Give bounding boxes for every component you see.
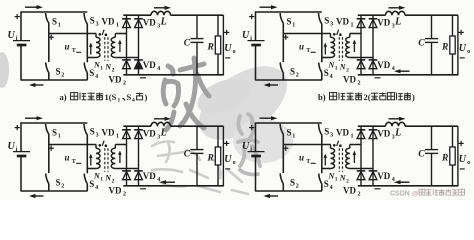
circuit c: label VD2 [109, 185, 127, 197]
svg-text:2: 2 [346, 178, 349, 184]
svg-text:C: C [418, 149, 425, 159]
svg-text:S: S [287, 127, 292, 137]
circuit d: secondary polarity dot [339, 144, 342, 147]
watermark: light gray swath lower [233, 119, 293, 163]
svg-text:2: 2 [123, 80, 126, 86]
svg-text:b): b) [318, 92, 326, 102]
circuit b: primary polarity dot [333, 30, 339, 36]
circuit d: wire secondary bottom to bridge [350, 168, 373, 170]
circuit c: wire output right rail [222, 126, 224, 186]
circuit d: current arrow top rail [260, 116, 278, 120]
circuit a: label Ui [8, 30, 18, 42]
circuit d: resistor R1 [450, 126, 455, 186]
circuit c: wire left rail upper [20, 123, 22, 151]
circuit d: switch S1 [280, 124, 283, 145]
circuit b: label C [418, 38, 425, 48]
circuit a: switch S1 [46, 13, 49, 34]
circuit b: wire right-leg midpoint to primary bottom [322, 57, 331, 59]
circuit c: inductor L1 [151, 122, 171, 126]
circuit d: label Uo [459, 154, 470, 166]
svg-text:1: 1 [58, 133, 61, 139]
circuit c: diode VD1 [122, 126, 131, 138]
svg-text:4: 4 [95, 74, 98, 80]
circuit d: wire output bottom rail [358, 185, 458, 187]
circuit b: wire output right rail [457, 15, 459, 75]
caption a: switching state 1 (S1 S4 on) [60, 92, 148, 104]
svg-text:2: 2 [358, 80, 361, 86]
circuit b: label Ui [242, 30, 252, 42]
circuit a: wire right-leg midpoint to primary bottom [87, 57, 96, 59]
svg-text:VD: VD [377, 18, 390, 28]
circuit c: current arrow above L [154, 117, 171, 121]
circuit d: freewheel current arrow bottom [394, 180, 410, 184]
svg-text:VD: VD [109, 185, 122, 195]
svg-text:2: 2 [112, 178, 115, 184]
svg-text:VD: VD [343, 74, 356, 84]
circuit d: label S2 [290, 178, 299, 190]
circuit b: inductor L1 [386, 11, 406, 15]
circuit c: label S4 [89, 179, 98, 191]
watermark: large gray glyph (stamp character) [163, 58, 209, 130]
circuit b: label plus of uT [283, 35, 288, 40]
circuit a: wire left rail lower [20, 46, 22, 81]
circuit b: plus sign of source Ui [249, 14, 254, 19]
watermark: CSDN credit text [390, 189, 465, 197]
svg-text:U: U [242, 30, 250, 41]
circuit d: switch S4 [319, 169, 322, 192]
svg-text:4: 4 [330, 185, 333, 191]
circuit d: label N1 [328, 172, 338, 183]
circuit d: transformer core [339, 148, 342, 172]
circuit b: resistor R1 [450, 15, 455, 75]
circuit a: current arrow above L [154, 6, 171, 10]
svg-text:2: 2 [346, 67, 349, 73]
circuit d: wire right-leg midpoint to primary bottom [322, 168, 331, 170]
circuit b: label N1 [328, 61, 338, 72]
circuit b: wire output bottom rail [358, 74, 458, 76]
circuit d: wire top rail [255, 122, 322, 124]
svg-text:VD: VD [143, 171, 156, 181]
svg-text:L: L [394, 128, 401, 139]
svg-text:): ) [145, 92, 148, 102]
circuit c: current arrow top rail [25, 116, 43, 120]
circuit a: label S4 [89, 68, 98, 80]
svg-text:u: u [65, 42, 70, 52]
circuit b: node wire left-leg midpoint to primary [283, 33, 330, 35]
svg-text:4: 4 [330, 74, 333, 80]
svg-text:4: 4 [132, 98, 135, 104]
svg-text:o: o [233, 49, 236, 55]
circuit b: wire secondary bottom to bridge [350, 57, 373, 59]
circuit b: switch S3 [319, 13, 322, 58]
circuit c: label C [184, 149, 191, 159]
svg-text:C: C [184, 38, 191, 48]
circuit b: label R [441, 42, 448, 52]
circuit d: label plus of Uo [459, 141, 464, 146]
svg-text:1(S: 1(S [105, 92, 117, 102]
svg-text:1: 1 [335, 176, 338, 182]
svg-text:T: T [72, 159, 76, 165]
svg-text:1: 1 [351, 23, 354, 29]
circuit d: wire secondary top to bridge [350, 144, 361, 146]
svg-text:L: L [160, 17, 167, 28]
svg-text:1: 1 [292, 22, 295, 28]
circuit a: wire secondary bottom to bridge [115, 57, 138, 59]
circuit b: current arrow top rail [260, 5, 278, 9]
circuit b: label VD4 [377, 60, 395, 72]
circuit d: label R [441, 153, 448, 163]
circuit c: label minus of uT [76, 162, 81, 164]
svg-text:VD: VD [109, 74, 122, 84]
circuit c: wire bridge right leg [138, 138, 140, 171]
svg-text:1: 1 [58, 22, 61, 28]
circuit a: wire bottom rail [21, 79, 88, 81]
circuit a: label minus of Uo [225, 57, 230, 59]
circuit b: voltage source Ui battery [248, 41, 265, 45]
svg-text:R: R [207, 42, 214, 52]
circuit c: label minus of Uo [225, 168, 230, 170]
circuit d: wire bridge right leg [372, 138, 374, 171]
circuit b: label Uo [459, 43, 470, 55]
circuit c: label L [160, 128, 167, 139]
circuit a: node wire left-leg midpoint to primary [49, 33, 96, 35]
circuit c: diode VD4 [134, 171, 143, 187]
circuit c: wire secondary top to bridge [115, 144, 126, 146]
circuit b: capacitor C1 [425, 15, 438, 75]
circuit b: label minus of uT [311, 51, 316, 53]
circuit c: label VD1 [102, 128, 120, 140]
circuit d: wire bottom rail [256, 190, 323, 192]
circuit d: switch S3 [319, 124, 322, 169]
circuit a: wire bridge right leg [138, 27, 140, 60]
circuit b: wire top rail [255, 11, 322, 13]
circuit b: switch S4 [319, 58, 322, 81]
circuit b: diode VD2 [357, 60, 366, 76]
svg-text:1: 1 [335, 65, 338, 71]
circuit a: switch S3 [84, 13, 87, 58]
circuit a: label VD3 [143, 18, 161, 30]
circuit b: wire bridge right leg [372, 27, 374, 60]
svg-text:L: L [160, 128, 167, 139]
circuit a: label Uo [224, 43, 235, 55]
circuit d: plus sign of source Ui [249, 125, 254, 130]
circuit d: diode VD3 [369, 126, 378, 138]
svg-text:S: S [290, 67, 295, 77]
svg-text:T: T [306, 159, 310, 165]
circuit b: label plus of Uo [459, 30, 464, 35]
circuit b: label minus of Uo [460, 57, 465, 59]
circuit c: label VD3 [143, 129, 161, 141]
svg-text:1: 1 [118, 98, 121, 104]
circuit a: label minus of uT [76, 51, 81, 53]
circuit b: switch S1 [280, 13, 283, 34]
svg-text:VD: VD [377, 129, 390, 139]
circuit d: label C [418, 149, 425, 159]
circuit d: label VD4 [377, 171, 395, 183]
svg-text:U: U [8, 141, 16, 152]
svg-text:S: S [324, 16, 329, 26]
svg-text:o: o [467, 160, 470, 166]
svg-text:L: L [394, 17, 401, 28]
svg-text:1: 1 [100, 65, 103, 71]
circuit a: transformer T1 secondary winding N2 [111, 34, 115, 58]
circuit b: diode VD1 [357, 15, 366, 27]
svg-text:2: 2 [123, 191, 126, 197]
circuit a: current arrow bottom rail [29, 83, 44, 87]
circuit c: diode VD2 [122, 171, 131, 187]
svg-text:a): a) [60, 92, 67, 102]
svg-text:VD: VD [343, 185, 356, 195]
circuit d: label VD2 [343, 185, 361, 197]
svg-text:2(: 2( [364, 92, 371, 102]
circuit b: transformer core [339, 37, 342, 61]
circuit a: wire bridge top rail [123, 14, 151, 16]
svg-text:2: 2 [296, 73, 299, 79]
circuit d: label plus of uT [283, 146, 288, 151]
circuit c: label Uo [224, 154, 235, 166]
circuit b: label S4 [324, 68, 333, 80]
svg-text:2: 2 [61, 184, 64, 190]
svg-text:R: R [207, 153, 214, 163]
circuit a: primary current arrow [89, 43, 93, 55]
circuit c: wire top rail to output [171, 125, 224, 127]
svg-text:C: C [184, 149, 191, 159]
circuit b: wire bottom rail [256, 79, 323, 81]
circuit a: label uT [65, 42, 76, 55]
circuit d: label L [394, 128, 401, 139]
svg-text:S: S [89, 68, 94, 78]
circuit a: label VD4 [143, 60, 161, 72]
circuit c: label S3 [90, 127, 99, 139]
circuit b: switch S2 [280, 34, 283, 81]
circuit d: wire left rail upper [255, 123, 257, 151]
svg-text:1: 1 [351, 134, 354, 140]
circuit d: label S4 [324, 179, 333, 191]
circuit c: freewheel current arrow bottom [160, 180, 176, 184]
circuit c: primary current arrow [89, 154, 93, 166]
circuit c: diode VD3 [134, 126, 143, 138]
watermark: light gray swath left lobe [192, 72, 255, 121]
circuit a: capacitor C1 [191, 15, 204, 75]
circuit a: label plus of uT [49, 35, 54, 40]
circuit d: label S1 [287, 127, 296, 139]
circuit b: wire bridge top rail [358, 14, 386, 16]
svg-text:S: S [56, 67, 61, 77]
circuit d: diode VD4 [369, 171, 378, 187]
circuit d: wire top rail to output [405, 125, 458, 127]
svg-text:S: S [90, 16, 95, 26]
circuit d: transformer T1 secondary winding N2 [346, 145, 350, 169]
circuit d: diode VD2 [357, 171, 366, 187]
circuit b: wire secondary top to bridge [350, 33, 361, 35]
circuit a: diode VD4 [134, 60, 143, 76]
circuit a: label S1 [52, 16, 61, 28]
svg-text:S: S [127, 92, 132, 102]
circuit b: wire left rail lower [255, 46, 257, 81]
circuit b: label VD1 [336, 17, 354, 29]
circuit a: label N2 [104, 63, 114, 74]
svg-text:u: u [65, 153, 70, 163]
caption b: switching state 2 (all switches off) [318, 92, 415, 102]
circuit c: wire output bottom rail [123, 185, 223, 187]
circuit d: wire output right rail [457, 126, 459, 186]
circuit a: transformer core [105, 37, 108, 61]
svg-text:3: 3 [330, 22, 333, 28]
svg-text:S: S [52, 127, 57, 137]
circuit b: label VD3 [377, 18, 395, 30]
svg-text:2: 2 [61, 73, 64, 79]
circuit d: label VD1 [336, 128, 354, 140]
circuit d: primary polarity dot [333, 141, 339, 147]
circuit d: wire bridge left leg [360, 138, 362, 171]
circuit d: voltage source Ui battery [248, 152, 265, 156]
circuit a: label C [184, 38, 191, 48]
circuit a: minus mark under bridge [140, 77, 146, 79]
circuit a: label S2 [56, 67, 65, 79]
svg-text:VD: VD [336, 128, 349, 138]
circuit d: label N2 [339, 174, 349, 185]
svg-text:S: S [324, 179, 329, 189]
circuit d: minus mark under bridge [375, 188, 381, 190]
watermark: light gray glyph behind circuit d [238, 114, 260, 175]
circuit d: current arrow bottom rail [264, 194, 279, 198]
svg-text:C: C [418, 38, 425, 48]
circuit a: label S3 [90, 16, 99, 28]
circuit a: switch S2 [46, 34, 49, 81]
circuit b: label S1 [287, 16, 296, 28]
circuit d: current arrow above L [389, 117, 406, 121]
svg-text:U: U [459, 154, 467, 165]
circuit b: secondary current arrow [353, 40, 357, 53]
svg-text:1: 1 [100, 176, 103, 182]
svg-text:VD: VD [143, 129, 156, 139]
svg-text:1: 1 [292, 133, 295, 139]
circuit c: wire bridge top rail [123, 125, 151, 127]
circuit d: wire left rail lower [255, 157, 257, 192]
svg-text:3: 3 [96, 133, 99, 139]
svg-text:U: U [459, 43, 467, 54]
circuit c: wire bridge left leg [126, 138, 128, 171]
svg-text:VD: VD [143, 18, 156, 28]
circuit b: current arrow above L [389, 6, 406, 10]
circuit c: label VD4 [143, 171, 161, 183]
svg-text:S: S [324, 127, 329, 137]
circuit a: diode VD1 [122, 15, 131, 27]
svg-text:U: U [8, 30, 16, 41]
circuit c: current arrow bottom rail [29, 194, 44, 198]
svg-text:2: 2 [358, 191, 361, 197]
svg-text:CSDN: CSDN [390, 191, 410, 198]
circuit c: wire left rail lower [20, 157, 22, 192]
circuit b: label uT [299, 42, 310, 55]
circuit c: label S1 [52, 127, 61, 139]
circuit a: secondary polarity dot [105, 33, 108, 36]
circuit b: freewheel current arrow bottom [394, 69, 410, 73]
svg-text:3: 3 [330, 133, 333, 139]
circuit c: wire right-leg midpoint to primary bottom [87, 168, 96, 170]
circuit c: label N1 [93, 172, 103, 183]
watermark: light gray swath center [186, 51, 300, 154]
circuit c: transformer T1 secondary winding N2 [111, 145, 115, 169]
circuit a: diode VD3 [134, 15, 143, 27]
circuit d: capacitor C1 [425, 126, 438, 186]
circuit c: label plus of Uo [224, 141, 229, 146]
circuit a: label VD2 [109, 74, 127, 86]
circuit b: label VD2 [343, 74, 361, 86]
svg-text:S: S [56, 178, 61, 188]
svg-text:S: S [290, 178, 295, 188]
circuit a: wire left rail upper [20, 12, 22, 40]
circuit c: label N2 [104, 174, 114, 185]
svg-text:S: S [89, 179, 94, 189]
circuit b: label S3 [324, 16, 333, 28]
circuit a: label VD1 [102, 17, 120, 29]
svg-text:U: U [242, 141, 250, 152]
svg-text:VD: VD [377, 171, 390, 181]
circuit b: diode VD3 [369, 15, 378, 27]
svg-text:o: o [467, 49, 470, 55]
circuit b: wire top rail to output [405, 14, 458, 16]
svg-text:4: 4 [157, 66, 160, 72]
circuit b: transformer T1 primary winding N1 [331, 34, 335, 58]
circuit a: voltage source Ui battery [13, 41, 30, 45]
svg-text:3: 3 [96, 22, 99, 28]
svg-text:4: 4 [95, 185, 98, 191]
circuit c: transformer T1 primary winding N1 [96, 145, 100, 169]
watermark: gray smudge left edge [0, 52, 9, 88]
circuit b: secondary polarity dot [339, 33, 342, 36]
circuit b: primary current arrow [324, 43, 328, 55]
svg-text:VD: VD [143, 60, 156, 70]
circuit d: label minus of Uo [460, 168, 465, 170]
circuit b: diode VD4 [369, 60, 378, 76]
circuit b: current arrow bottom rail [264, 83, 279, 87]
svg-text:VD: VD [102, 17, 115, 27]
circuit a: diode VD2 [122, 60, 131, 76]
circuit a: switch S4 [84, 58, 87, 81]
circuit a: secondary current arrow [118, 40, 122, 53]
circuit a: label plus of Uo [224, 30, 229, 35]
circuit c: label plus of uT [49, 146, 54, 151]
svg-text:VD: VD [102, 128, 115, 138]
svg-text:1: 1 [116, 23, 119, 29]
svg-text:u: u [299, 42, 304, 52]
watermark: light gray scattered strokes lower [152, 142, 248, 195]
svg-text:T: T [72, 48, 76, 54]
circuit b: transformer T1 secondary winding N2 [346, 34, 350, 58]
circuit a: wire top rail to output [171, 14, 224, 16]
svg-text:S: S [287, 16, 292, 26]
circuit d: label uT [299, 153, 310, 166]
circuit d: node wire left-leg midpoint to primary [283, 144, 330, 146]
circuit a: current arrow top rail [25, 5, 43, 9]
svg-text:U: U [224, 43, 232, 54]
circuit d: label Ui [242, 141, 252, 153]
circuit c: wire bottom rail [21, 190, 88, 192]
circuit c: switch S3 [84, 124, 87, 169]
circuit c: switch S4 [84, 169, 87, 192]
circuit c: primary polarity dot [99, 141, 105, 147]
circuit a: inductor L1 [151, 11, 171, 15]
circuit a: wire secondary top to bridge [115, 33, 126, 35]
svg-text:o: o [233, 160, 236, 166]
circuit c: resistor R1 [215, 126, 220, 186]
circuit c: wire top rail [20, 122, 87, 124]
circuit c: label S2 [56, 178, 65, 190]
circuit d: wire bridge top rail [358, 125, 386, 127]
circuit b: label L [394, 17, 401, 28]
circuit a: label L [160, 17, 167, 28]
